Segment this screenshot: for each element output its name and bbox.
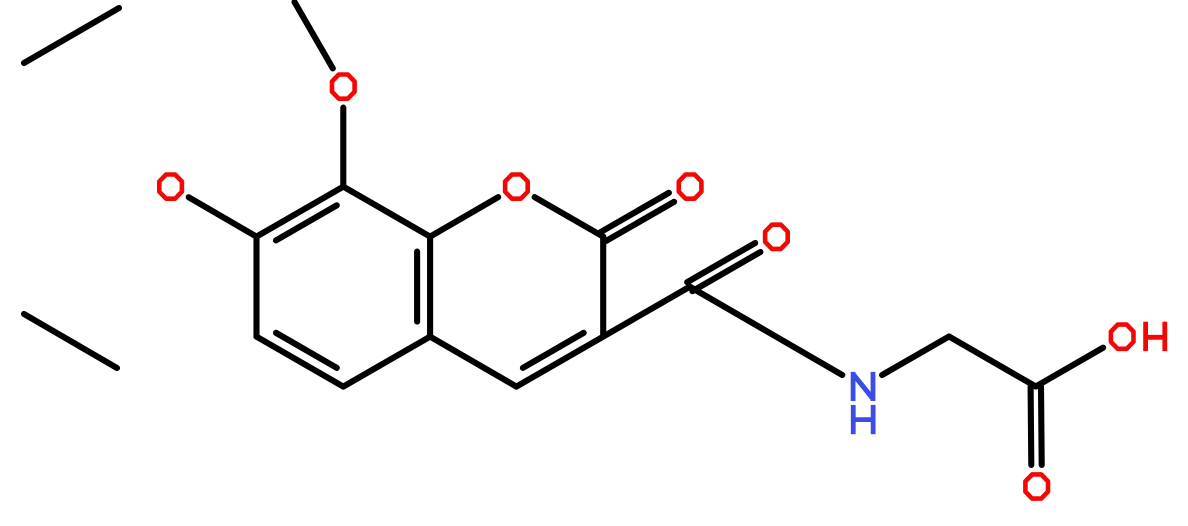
wire clipped fragment top-left bbox=[24, 8, 119, 63]
atom O7 carboxyl carbonyl oxygen bbox=[1025, 474, 1048, 498]
atom O6 hydroxyl oxygen bbox=[1111, 325, 1134, 349]
bond Cketone-N long straight bbox=[690, 287, 843, 375]
bond C7-O2 methoxy bbox=[189, 197, 257, 236]
double bond C2=O4 line a bbox=[606, 202, 674, 241]
double bond Cketone=O5 line b bbox=[687, 243, 755, 282]
bond O1-CH3 clipped at top bbox=[295, 2, 333, 68]
bond C7-C6 bbox=[253, 237, 259, 337]
bond C8-O1 methoxy bbox=[340, 108, 346, 187]
bond C8-C7 inner double bbox=[276, 205, 337, 240]
double bond Cketone=O5 line a bbox=[692, 252, 760, 291]
atom N amine nitrogen bbox=[853, 372, 873, 401]
bond C4a-C8a bbox=[427, 237, 433, 337]
bond Ccarboxyl-O6 hydroxyl bbox=[1036, 348, 1103, 387]
bond C8a-C8 bbox=[343, 187, 430, 237]
atom O5 ketone carbonyl oxygen bbox=[765, 225, 788, 249]
bond O3-C2 bbox=[535, 197, 604, 237]
double bond Ccarboxyl=O7 line a bbox=[1028, 387, 1035, 466]
bond C6-C5 bbox=[257, 337, 344, 387]
bond C6-C5 inner double bbox=[276, 333, 337, 368]
bond C4-C4a bbox=[430, 337, 516, 387]
bond CH2-Ccarboxyl bbox=[949, 337, 1036, 387]
atom H on nitrogen bbox=[853, 405, 873, 434]
bond C5-C4a bbox=[343, 337, 430, 387]
double bond Ccarboxyl=O7 line b bbox=[1038, 387, 1045, 466]
bond C3-C4 inner double bbox=[523, 333, 584, 368]
wire clipped fragment bottom-left bbox=[24, 314, 117, 368]
bond C3-C4 bbox=[516, 337, 603, 387]
atom O1 top methoxy oxygen bbox=[332, 75, 355, 99]
bond N-CH2 bbox=[882, 337, 949, 376]
bond C2-C3 bbox=[600, 237, 606, 337]
atom O4 lactone carbonyl oxygen bbox=[679, 175, 702, 199]
atom H of hydroxyl bbox=[1146, 322, 1165, 351]
bond C3-Cketone bbox=[603, 287, 690, 337]
bond C4a-C8a inner double bbox=[414, 252, 420, 322]
bond C8-C7 bbox=[257, 187, 344, 237]
double bond C2=O4 line b bbox=[601, 193, 669, 232]
atom O2 left methoxy oxygen bbox=[159, 175, 182, 199]
atom O3 ring oxygen bbox=[505, 175, 528, 199]
bond C8a-O3 ring oxygen bbox=[430, 197, 498, 237]
